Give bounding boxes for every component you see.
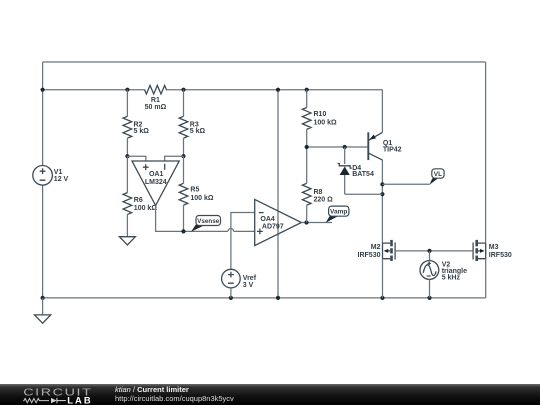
svg-text:50 mΩ: 50 mΩ (145, 104, 167, 111)
node junction OA4 output (304, 220, 308, 224)
svg-text:12 V: 12 V (54, 176, 69, 183)
svg-text:R5: R5 (190, 187, 199, 194)
wire right drop to M3 drain (485, 62, 487, 243)
node junction rail2-R3 (181, 88, 185, 92)
node junction bottom-V2 (427, 296, 431, 300)
resistor R1 (145, 85, 167, 111)
svg-text:3 V: 3 V (243, 282, 254, 289)
node junction R5 bottom (181, 229, 185, 233)
node junction bottom-left (41, 296, 45, 300)
node junction gate-V2 (427, 249, 431, 253)
ground bottom left (35, 298, 51, 323)
wire bottom rail (43, 297, 486, 299)
node junction rail2-midnet (276, 88, 280, 92)
wire OA4 output (301, 222, 332, 224)
wire OA1 plus pin (127, 156, 145, 161)
resistor R10 (302, 90, 337, 147)
wire VL (382, 183, 429, 185)
svg-text:VL: VL (434, 171, 442, 178)
wire D4 loop (345, 193, 383, 195)
wire gate rail (396, 250, 473, 252)
wire OA1 output (156, 206, 228, 232)
svg-text:IRF530: IRF530 (358, 252, 381, 259)
node junction bottom-midnet (276, 296, 280, 300)
svg-text:M2: M2 (371, 244, 381, 251)
resistor R8 (302, 147, 333, 223)
svg-text:R1: R1 (151, 97, 160, 104)
voltage source V1 (33, 166, 69, 186)
svg-text:5 kHz: 5 kHz (442, 274, 461, 281)
svg-text:Vamp: Vamp (330, 209, 347, 216)
node junction OA1 plus input (125, 154, 129, 158)
svg-text:LAB: LAB (67, 394, 93, 405)
wire second rail right of R1 (166, 89, 383, 91)
op-amp OA1 (132, 161, 179, 206)
wire OA1 minus pin (165, 156, 184, 161)
svg-text:5 kΩ: 5 kΩ (190, 128, 206, 135)
svg-text:5 kΩ: 5 kΩ (134, 128, 150, 135)
svg-text:R10: R10 (314, 111, 327, 118)
wire OA4 minus input (231, 213, 255, 270)
node junction rail2-R2 (125, 88, 129, 92)
svg-text:M3: M3 (489, 244, 499, 251)
wire top rail (43, 61, 486, 63)
node junction OA1 minus input (181, 154, 185, 158)
resistor R6 (123, 156, 157, 237)
node junction collector-VL (380, 182, 384, 186)
wire hop over vertical (228, 229, 234, 232)
ground under R6 (119, 237, 135, 245)
svg-text:BAT54: BAT54 (352, 171, 374, 178)
wire mid vertical net (277, 90, 279, 298)
transistor M3 (473, 240, 512, 261)
node junction rail2-left (41, 88, 45, 92)
svg-text:IRF530: IRF530 (489, 252, 512, 259)
wire Q1 emitter drop (381, 90, 383, 133)
svg-text:V1: V1 (54, 169, 63, 176)
wire M3 source down (485, 259, 487, 298)
svg-text:220 Ω: 220 Ω (314, 196, 334, 203)
svg-text:OA1: OA1 (149, 171, 164, 178)
op-amp OA4 (255, 199, 302, 245)
node junction base-D4 (343, 145, 347, 149)
svg-text:OA4: OA4 (260, 216, 275, 223)
flag Vsense (191, 216, 221, 232)
voltage source Vref (222, 269, 257, 298)
svg-text:AD797: AD797 (262, 223, 284, 230)
wire Q1 base (307, 146, 369, 148)
svg-text:R6: R6 (134, 197, 143, 204)
CircuitLab logo (0, 384, 110, 405)
wire left vertical V1 bottom (42, 185, 44, 298)
node junction base-R10 (305, 145, 309, 149)
wire Q1 collector down (381, 160, 383, 243)
transistor Q1 (368, 132, 401, 160)
svg-text:Vref: Vref (243, 275, 257, 282)
voltage source V2 (420, 251, 467, 298)
resistor R5 (179, 156, 214, 231)
node junction collector-D4loop (380, 192, 384, 196)
resistor R3 (179, 90, 205, 157)
flag VL (430, 169, 444, 185)
diode D4 (338, 147, 374, 194)
svg-text:Vsense: Vsense (197, 218, 220, 225)
wire M2 source down (382, 259, 384, 298)
resistor R2 (123, 90, 149, 157)
svg-text:100 kΩ: 100 kΩ (134, 205, 158, 212)
svg-text:100 kΩ: 100 kΩ (314, 119, 338, 126)
wire left vertical V1 top (42, 62, 44, 166)
svg-text:LM324: LM324 (145, 179, 167, 186)
transistor M2 (358, 240, 396, 261)
flag Vamp (326, 206, 349, 223)
svg-text:TIP42: TIP42 (383, 147, 402, 154)
wire second rail left of R1 (43, 89, 145, 91)
node junction bottom-M2 (380, 296, 384, 300)
svg-text:100 kΩ: 100 kΩ (190, 195, 214, 202)
wire to OA4 plus (234, 230, 255, 232)
node junction bottom-Vref (229, 296, 233, 300)
node junction rail2-R10 (305, 88, 309, 92)
svg-text:R8: R8 (314, 189, 323, 196)
